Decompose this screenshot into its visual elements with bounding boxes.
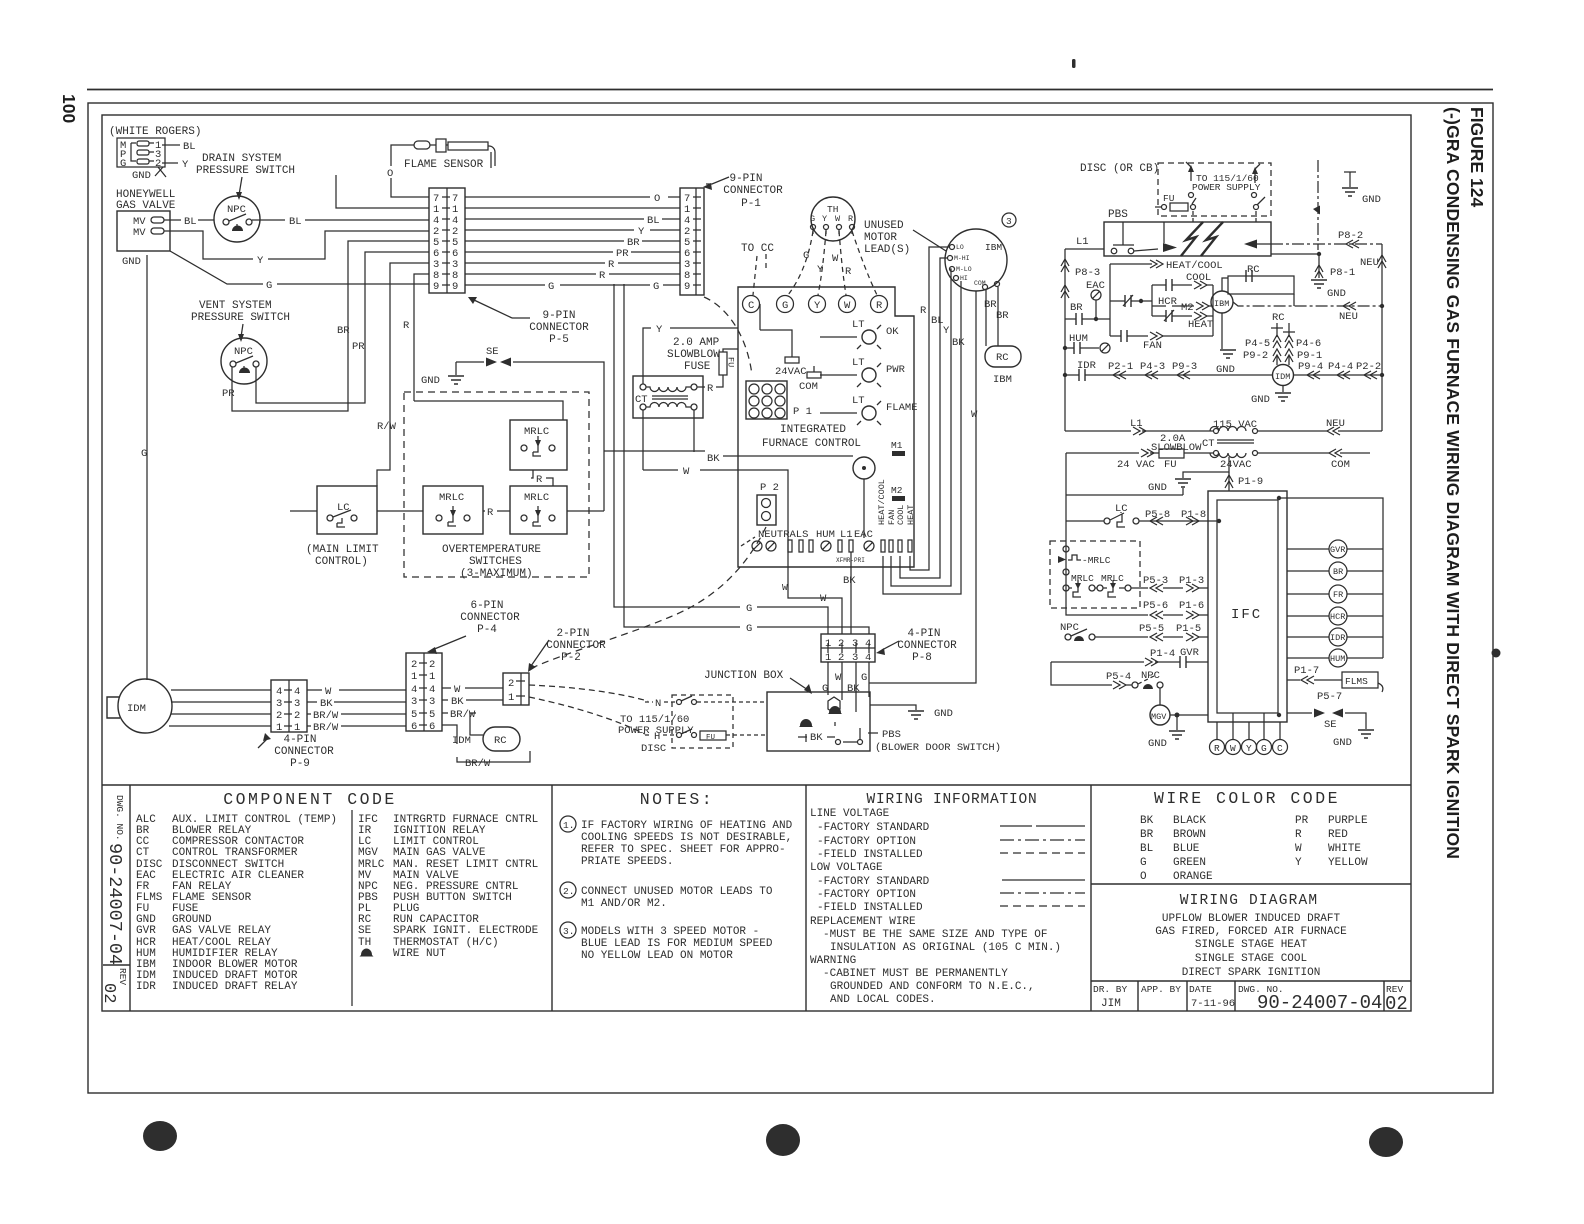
- svg-text:BROWN: BROWN: [1173, 829, 1206, 841]
- svg-text:(WHITE ROGERS): (WHITE ROGERS): [109, 126, 201, 138]
- power supply arrows: [1186, 162, 1261, 193]
- IBM coil ground: [1216, 313, 1236, 376]
- svg-text:W: W: [454, 684, 461, 696]
- svg-text:IF FACTORY WIRING OF HEATING A: IF FACTORY WIRING OF HEATING AND: [581, 820, 793, 832]
- MRLC box 2: [423, 486, 483, 534]
- svg-text:FR: FR: [1333, 590, 1343, 600]
- RC loop wire BR/W: [442, 725, 530, 770]
- COOL contact: [1152, 272, 1213, 291]
- svg-text:G: G: [1140, 857, 1147, 869]
- wires P-8 to junction box: [822, 662, 869, 712]
- svg-text:CONNECTOR: CONNECTOR: [274, 746, 334, 758]
- svg-text:PR: PR: [222, 388, 235, 400]
- svg-text:9: 9: [452, 281, 458, 293]
- svg-text:N: N: [655, 698, 661, 710]
- svg-text:IDR: IDR: [136, 981, 156, 993]
- svg-text:W: W: [325, 686, 332, 698]
- svg-text:SLOWBLOW: SLOWBLOW: [667, 349, 720, 361]
- svg-text:REFER TO SPEC. SHEET FOR APPRO: REFER TO SPEC. SHEET FOR APPRO-: [581, 844, 786, 856]
- R BL Y BK verticals from motor leads: [883, 247, 965, 594]
- svg-text:W: W: [844, 300, 851, 312]
- svg-text:LINE VOLTAGE: LINE VOLTAGE: [810, 808, 890, 820]
- IFC main box: [738, 287, 914, 567]
- lightning bolt 1: [1163, 222, 1203, 256]
- EAC: [1086, 280, 1105, 319]
- 9-pin connector P-1: [680, 188, 704, 295]
- run capacitor RC oval: [452, 727, 520, 751]
- svg-text:FU: FU: [1163, 193, 1175, 204]
- svg-text:YELLOW: YELLOW: [1328, 857, 1368, 869]
- svg-text:CT: CT: [1202, 438, 1215, 450]
- svg-text:M2: M2: [891, 485, 903, 496]
- integrated furnace control label: [762, 424, 861, 450]
- scan speck top: [1072, 59, 1076, 68]
- svg-text:FAN: FAN: [1143, 340, 1162, 352]
- svg-text:DWG. NO.: DWG. NO.: [114, 795, 125, 841]
- svg-text:ORANGE: ORANGE: [1173, 871, 1213, 883]
- run capacitor RC (IBM): [985, 346, 1021, 386]
- svg-text:INTEGRATED: INTEGRATED: [780, 424, 846, 436]
- svg-text:6-PIN: 6-PIN: [470, 600, 503, 612]
- svg-text:PRESSURE SWITCH: PRESSURE SWITCH: [191, 312, 290, 324]
- svg-text:3: 3: [1006, 216, 1012, 227]
- svg-text:DATE: DATE: [1189, 984, 1212, 995]
- junction box ground: [870, 705, 953, 720]
- svg-text:GND: GND: [1148, 738, 1167, 750]
- svg-text:GVR: GVR: [136, 925, 156, 937]
- svg-text:9-PIN: 9-PIN: [542, 310, 575, 322]
- svg-text:COM: COM: [974, 280, 986, 287]
- svg-text:G: G: [266, 280, 272, 292]
- svg-text:SPARK IGNIT. ELECTRODE: SPARK IGNIT. ELECTRODE: [393, 925, 539, 937]
- svg-text:SINGLE STAGE HEAT: SINGLE STAGE HEAT: [1195, 939, 1308, 951]
- 9-pin connector P-5: [429, 188, 465, 293]
- svg-text:90-24007-04: 90-24007-04: [104, 843, 125, 965]
- svg-text:P5-4: P5-4: [1106, 671, 1131, 683]
- 24VAC secondary row: [1066, 433, 1370, 471]
- svg-text:GROUNDED AND CONFORM TO N.E.C.: GROUNDED AND CONFORM TO N.E.C.,: [830, 981, 1035, 993]
- svg-text:M1: M1: [891, 440, 903, 451]
- svg-text:R: R: [845, 266, 852, 278]
- IDM wires to P-9: [169, 690, 271, 726]
- svg-text:-FACTORY STANDARD: -FACTORY STANDARD: [817, 876, 930, 888]
- induced draft motor blob: [107, 679, 172, 733]
- svg-text:CONNECTOR: CONNECTOR: [897, 640, 957, 652]
- svg-text:R: R: [1214, 743, 1220, 754]
- svg-text:P5-7: P5-7: [1317, 691, 1342, 703]
- svg-text:2: 2: [838, 638, 844, 650]
- fuse FU vertical: [719, 352, 736, 375]
- svg-text:INDUCED DRAFT RELAY: INDUCED DRAFT RELAY: [172, 981, 298, 993]
- MRLC1 to MRLC3 R link: [531, 470, 553, 486]
- PBS blower door switch: [798, 728, 863, 745]
- wire row8 R down: [403, 274, 429, 401]
- svg-text:JIM: JIM: [1101, 998, 1121, 1010]
- svg-text:GND: GND: [1362, 194, 1381, 206]
- svg-text:CT: CT: [136, 847, 150, 859]
- svg-text:NEU: NEU: [1326, 418, 1345, 430]
- svg-text:G: G: [861, 672, 867, 684]
- svg-text:(3-MAXIMUM): (3-MAXIMUM): [460, 568, 533, 580]
- svg-text:P8-1: P8-1: [1330, 267, 1355, 279]
- terminal strip labels: [758, 479, 916, 541]
- svg-text:R: R: [536, 474, 543, 486]
- svg-text:4-PIN: 4-PIN: [907, 628, 940, 640]
- svg-text:2.: 2.: [563, 886, 574, 897]
- thermostat TH: [810, 197, 855, 241]
- low voltage left rail: [1066, 453, 1183, 521]
- svg-text:BK: BK: [847, 683, 860, 695]
- M2 wire: [1152, 302, 1211, 314]
- dashed pointer to neutrals: [741, 537, 755, 546]
- svg-text:FU: FU: [706, 734, 715, 742]
- wire BR from P-5 row5 down to NPC: [232, 241, 429, 411]
- 9-pin connector P-5 label: [468, 297, 589, 346]
- junction box: [767, 692, 870, 751]
- svg-text:Y: Y: [943, 325, 950, 337]
- svg-text:FURNACE CONTROL: FURNACE CONTROL: [762, 438, 861, 450]
- svg-text:NOTES:: NOTES:: [640, 790, 714, 809]
- svg-text:W: W: [971, 409, 978, 421]
- svg-text:4: 4: [865, 638, 871, 650]
- svg-text:R: R: [403, 320, 410, 332]
- HUM branch: [1063, 333, 1110, 354]
- CT secondary leads: [643, 410, 694, 470]
- svg-text:PBS: PBS: [1108, 209, 1128, 221]
- svg-text:HEAT: HEAT: [1188, 319, 1213, 331]
- lightning bolt 2: [1201, 222, 1271, 256]
- svg-text:SWITCHES: SWITCHES: [469, 556, 522, 568]
- svg-text:P9-3: P9-3: [1172, 361, 1197, 373]
- svg-text:OVERTEMPERATURE: OVERTEMPERATURE: [442, 544, 541, 556]
- svg-text:DISC (OR CB): DISC (OR CB): [1080, 163, 1159, 175]
- svg-text:1: 1: [508, 692, 514, 704]
- R wire CT to fuse: [697, 375, 723, 395]
- FAN contact: [1110, 330, 1213, 352]
- DISC (OR CB) label: [1080, 163, 1159, 175]
- white rogers connector label: [109, 126, 201, 138]
- svg-text:P2-2: P2-2: [1356, 361, 1381, 373]
- svg-text:RED: RED: [1328, 829, 1348, 841]
- svg-text:R/W: R/W: [377, 421, 397, 433]
- svg-text:P1-7: P1-7: [1294, 665, 1319, 677]
- svg-text:02: 02: [1385, 993, 1408, 1015]
- svg-text:BR/W: BR/W: [313, 710, 339, 722]
- svg-text:P2-1: P2-1: [1108, 361, 1133, 373]
- svg-text:M-HI: M-HI: [954, 255, 970, 262]
- PBS label: [868, 729, 1001, 754]
- svg-text:BR/W: BR/W: [450, 709, 476, 721]
- svg-text:TO CC: TO CC: [741, 243, 774, 255]
- RC above IDM: [1271, 312, 1295, 337]
- wire G from valve: [170, 251, 429, 292]
- dwg number strip: [103, 785, 130, 1011]
- honeywell gas valve label: [116, 189, 176, 212]
- HEAT NC contact: [1152, 310, 1213, 331]
- svg-text:P1-9: P1-9: [1238, 476, 1263, 488]
- svg-text:2: 2: [838, 652, 844, 664]
- P-9 to P-4 wires: [307, 686, 406, 734]
- DISC dashed box top right: [1158, 163, 1271, 216]
- P8-2 row: [1271, 230, 1382, 248]
- main limit control LC box: [317, 486, 377, 534]
- svg-text:HI: HI: [960, 275, 968, 282]
- PBS contacts: [1111, 248, 1158, 254]
- svg-text:FUSE: FUSE: [684, 361, 711, 373]
- svg-text:BR: BR: [1333, 567, 1343, 577]
- svg-text:FU: FU: [1164, 459, 1177, 471]
- BK drop from strip to P-8: [843, 552, 856, 634]
- svg-text:3: 3: [429, 696, 435, 708]
- svg-text:LO: LO: [956, 244, 964, 251]
- svg-text:P4-5: P4-5: [1245, 338, 1270, 350]
- 4-pin connector P-9: [271, 680, 307, 734]
- svg-text:GND: GND: [1148, 482, 1167, 494]
- HCR NC contact: [1110, 295, 1178, 308]
- svg-text:R: R: [920, 305, 927, 317]
- heat/cool arrow label: [1110, 260, 1223, 272]
- svg-text:BR: BR: [627, 237, 640, 249]
- white rogers terminal block: [117, 138, 165, 170]
- svg-text:G: G: [810, 214, 815, 224]
- page frame: [88, 103, 1493, 1093]
- IDM coil ground: [1251, 386, 1291, 406]
- svg-text:WHITE: WHITE: [1328, 843, 1361, 855]
- disconnect solid box: [1104, 222, 1271, 256]
- G wire down to P-8 (left): [614, 284, 828, 634]
- svg-text:W: W: [835, 672, 842, 684]
- svg-text:SINGLE STAGE COOL: SINGLE STAGE COOL: [1195, 953, 1307, 965]
- interconnect rows P-5 to P-1: [465, 193, 680, 293]
- svg-text:Y: Y: [814, 300, 821, 312]
- NEU dash-dot from IBM: [1233, 302, 1384, 323]
- PBS label and rod: [1108, 209, 1134, 245]
- P-9 label: [258, 733, 334, 770]
- svg-text:4-PIN: 4-PIN: [283, 734, 316, 746]
- W wire from motor com: [869, 291, 978, 683]
- LT lights: [820, 319, 918, 425]
- line style samples: [1000, 826, 1085, 906]
- IDR row: [1063, 360, 1272, 381]
- svg-text:1: 1: [294, 722, 300, 734]
- svg-text:P1-6: P1-6: [1179, 600, 1204, 612]
- svg-text:1: 1: [429, 671, 435, 683]
- svg-text:4: 4: [429, 684, 435, 696]
- svg-text:Y: Y: [182, 159, 189, 171]
- 4-pin connector P-8: [821, 634, 875, 664]
- svg-text:LOW VOLTAGE: LOW VOLTAGE: [810, 862, 883, 874]
- P4-5 P4-6 P9-2 P9-1 arrows: [1243, 335, 1322, 365]
- overtemperature labels: [442, 544, 541, 580]
- 24VAC COM terminals: [760, 304, 821, 393]
- dash-dot drop to P8-1: [1271, 160, 1355, 300]
- svg-text:GAS VALVE RELAY: GAS VALVE RELAY: [172, 925, 271, 937]
- svg-text:MRLC: MRLC: [524, 426, 549, 438]
- unused motor leads label: [864, 220, 946, 256]
- svg-text:100: 100: [59, 94, 79, 123]
- bracket verticals: [1110, 264, 1213, 336]
- L1 label and wire: [1065, 236, 1104, 249]
- svg-text:BR: BR: [1070, 302, 1083, 314]
- svg-text:GND: GND: [421, 375, 440, 387]
- svg-text:3: 3: [852, 638, 858, 650]
- LC to MRLC wires: [290, 507, 604, 519]
- svg-text:LC: LC: [1115, 503, 1128, 515]
- svg-text:R: R: [876, 300, 883, 312]
- svg-text:WIRING DIAGRAM: WIRING DIAGRAM: [1180, 893, 1319, 909]
- svg-text:3: 3: [276, 698, 282, 710]
- W wire into IFC: [643, 466, 842, 634]
- svg-text:PRIATE SPEEDS.: PRIATE SPEEDS.: [581, 856, 673, 868]
- svg-text:COOL: COOL: [896, 505, 906, 525]
- svg-text:BK: BK: [843, 575, 856, 587]
- svg-text:MODELS WITH 3 SPEED MOTOR -: MODELS WITH 3 SPEED MOTOR -: [581, 926, 759, 938]
- svg-text:NPC: NPC: [234, 346, 253, 358]
- svg-text:MGV: MGV: [1151, 712, 1167, 722]
- svg-text:P4-6: P4-6: [1296, 338, 1321, 350]
- P-4 label: [427, 600, 520, 654]
- svg-text:(BLOWER DOOR SWITCH): (BLOWER DOOR SWITCH): [875, 742, 1001, 754]
- svg-text:IBM: IBM: [993, 374, 1012, 386]
- MRLC dashed box: [1050, 541, 1140, 608]
- BR contact: [1065, 302, 1110, 325]
- svg-text:GND: GND: [1216, 364, 1235, 376]
- svg-text:HUM: HUM: [1069, 333, 1088, 345]
- wire row1 P-5 left: [336, 175, 429, 208]
- MRLC manual reset internals: [1058, 521, 1131, 597]
- svg-text:NO YELLOW LEAD ON MOTOR: NO YELLOW LEAD ON MOTOR: [581, 950, 733, 962]
- svg-text:P 1: P 1: [793, 406, 812, 418]
- svg-text:NPC: NPC: [227, 204, 246, 216]
- svg-text:GVR: GVR: [1180, 647, 1200, 659]
- svg-text:FLAME: FLAME: [886, 402, 918, 414]
- svg-text:HUM: HUM: [1330, 654, 1345, 664]
- svg-text:IBM: IBM: [985, 242, 1002, 253]
- svg-text:PR: PR: [1295, 815, 1309, 827]
- svg-text:2: 2: [276, 710, 282, 722]
- svg-text:HEAT/COOL: HEAT/COOL: [877, 479, 887, 525]
- svg-text:2: 2: [429, 659, 435, 671]
- svg-text:P1-5: P1-5: [1176, 623, 1201, 635]
- svg-text:BR: BR: [337, 325, 350, 337]
- svg-text:P1-4: P1-4: [1150, 648, 1175, 660]
- outer top rule: [87, 89, 1493, 91]
- svg-text:P-8: P-8: [912, 652, 932, 664]
- scan speck: [1492, 649, 1501, 658]
- P1-7 FLMS row: [1287, 665, 1383, 703]
- svg-text:BL: BL: [1140, 843, 1153, 855]
- svg-text:SE: SE: [358, 925, 372, 937]
- wire row3 R/W down: [377, 263, 429, 486]
- svg-text:GAS FIRED, FORCED AIR FURNACE: GAS FIRED, FORCED AIR FURNACE: [1155, 926, 1347, 938]
- svg-text:NPC: NPC: [1060, 622, 1079, 634]
- svg-text:BL: BL: [647, 215, 660, 227]
- svg-text:C: C: [748, 300, 754, 312]
- svg-text:WIRE COLOR CODE: WIRE COLOR CODE: [1154, 789, 1340, 808]
- svg-text:CONNECTOR: CONNECTOR: [460, 612, 520, 624]
- svg-text:P-2: P-2: [561, 652, 581, 664]
- svg-text:1.: 1.: [563, 820, 574, 831]
- svg-text:COM: COM: [1331, 459, 1350, 471]
- svg-text:RC: RC: [494, 735, 507, 747]
- FU fuse in DISC: [1155, 193, 1196, 212]
- svg-text:DIRECT SPARK IGNITION: DIRECT SPARK IGNITION: [1182, 967, 1321, 979]
- svg-text:(-)GRA CONDENSING GAS FURNACE: (-)GRA CONDENSING GAS FURNACE WIRING DIA…: [1443, 107, 1463, 859]
- svg-text:NEU: NEU: [1339, 311, 1358, 323]
- svg-text:DISC: DISC: [641, 743, 666, 755]
- svg-text:PRESSURE SWITCH: PRESSURE SWITCH: [196, 165, 295, 177]
- NPC vent pressure switch: [221, 338, 267, 400]
- svg-text:WIRING INFORMATION: WIRING INFORMATION: [866, 792, 1037, 808]
- svg-text:MRLC: MRLC: [1071, 573, 1094, 584]
- svg-text:FU: FU: [726, 357, 736, 367]
- svg-text:W: W: [832, 253, 839, 265]
- M1 node circle: [853, 457, 875, 538]
- svg-text:EAC: EAC: [854, 529, 873, 541]
- svg-text:GND: GND: [1327, 288, 1346, 300]
- junction box label: [704, 670, 812, 694]
- svg-text:G: G: [746, 603, 752, 615]
- IDM row right: [1294, 361, 1384, 379]
- G wire down to P-8 pin4: [624, 284, 869, 635]
- svg-text:24VAC: 24VAC: [775, 366, 807, 378]
- svg-text:P1-3: P1-3: [1179, 575, 1204, 587]
- P5-3 P1-3 row: [1131, 575, 1208, 592]
- svg-text:R: R: [1295, 829, 1302, 841]
- svg-text:6: 6: [429, 721, 435, 733]
- svg-text:-FACTORY OPTION: -FACTORY OPTION: [817, 836, 916, 848]
- svg-text:G: G: [803, 250, 809, 262]
- svg-text:POWER SUPPLY: POWER SUPPLY: [618, 725, 694, 737]
- svg-text:P-1: P-1: [741, 198, 761, 210]
- svg-text:Y: Y: [817, 264, 824, 276]
- svg-text:OK: OK: [886, 326, 899, 338]
- svg-text:2: 2: [155, 158, 161, 170]
- svg-text:FIGURE 124: FIGURE 124: [1467, 107, 1487, 207]
- svg-text:3.: 3.: [563, 926, 574, 937]
- P-2 label: [528, 628, 606, 672]
- svg-text:PR: PR: [352, 341, 365, 353]
- svg-text:BR: BR: [1140, 829, 1154, 841]
- wire to BL: [162, 141, 196, 153]
- wire to Y: [162, 159, 189, 171]
- svg-text:P4-4: P4-4: [1328, 361, 1353, 373]
- R wire to MRLC1: [414, 401, 563, 420]
- svg-text:CONNECT UNUSED MOTOR LEADS TO: CONNECT UNUSED MOTOR LEADS TO: [581, 886, 773, 898]
- svg-text:W: W: [782, 582, 788, 593]
- RWYGC terminals under IFC: [1210, 713, 1288, 755]
- svg-text:-FACTORY OPTION: -FACTORY OPTION: [817, 889, 916, 901]
- W label near P8 path: [782, 582, 827, 605]
- RC branch top: [1222, 264, 1294, 306]
- svg-text:1: 1: [411, 671, 417, 683]
- terminal strip symbols: [752, 540, 912, 564]
- svg-text:IDM: IDM: [452, 735, 471, 747]
- dashed curve TH to P-2: [704, 297, 752, 375]
- LC switch row: [1066, 503, 1221, 527]
- ground at SE: [421, 362, 464, 387]
- svg-text:W: W: [1295, 843, 1302, 855]
- svg-text:O: O: [387, 168, 393, 180]
- svg-text:INSULATION AS ORIGINAL (105 C: INSULATION AS ORIGINAL (105 C MIN.): [830, 942, 1061, 954]
- svg-text:HCR: HCR: [1330, 612, 1345, 622]
- svg-text:R: R: [599, 270, 606, 282]
- svg-text:Y: Y: [822, 214, 827, 224]
- DISC switches: [645, 696, 767, 742]
- right collector rail: [1279, 498, 1383, 658]
- gnd tap under secondary: [1148, 457, 1229, 495]
- svg-text:P-9: P-9: [290, 758, 310, 770]
